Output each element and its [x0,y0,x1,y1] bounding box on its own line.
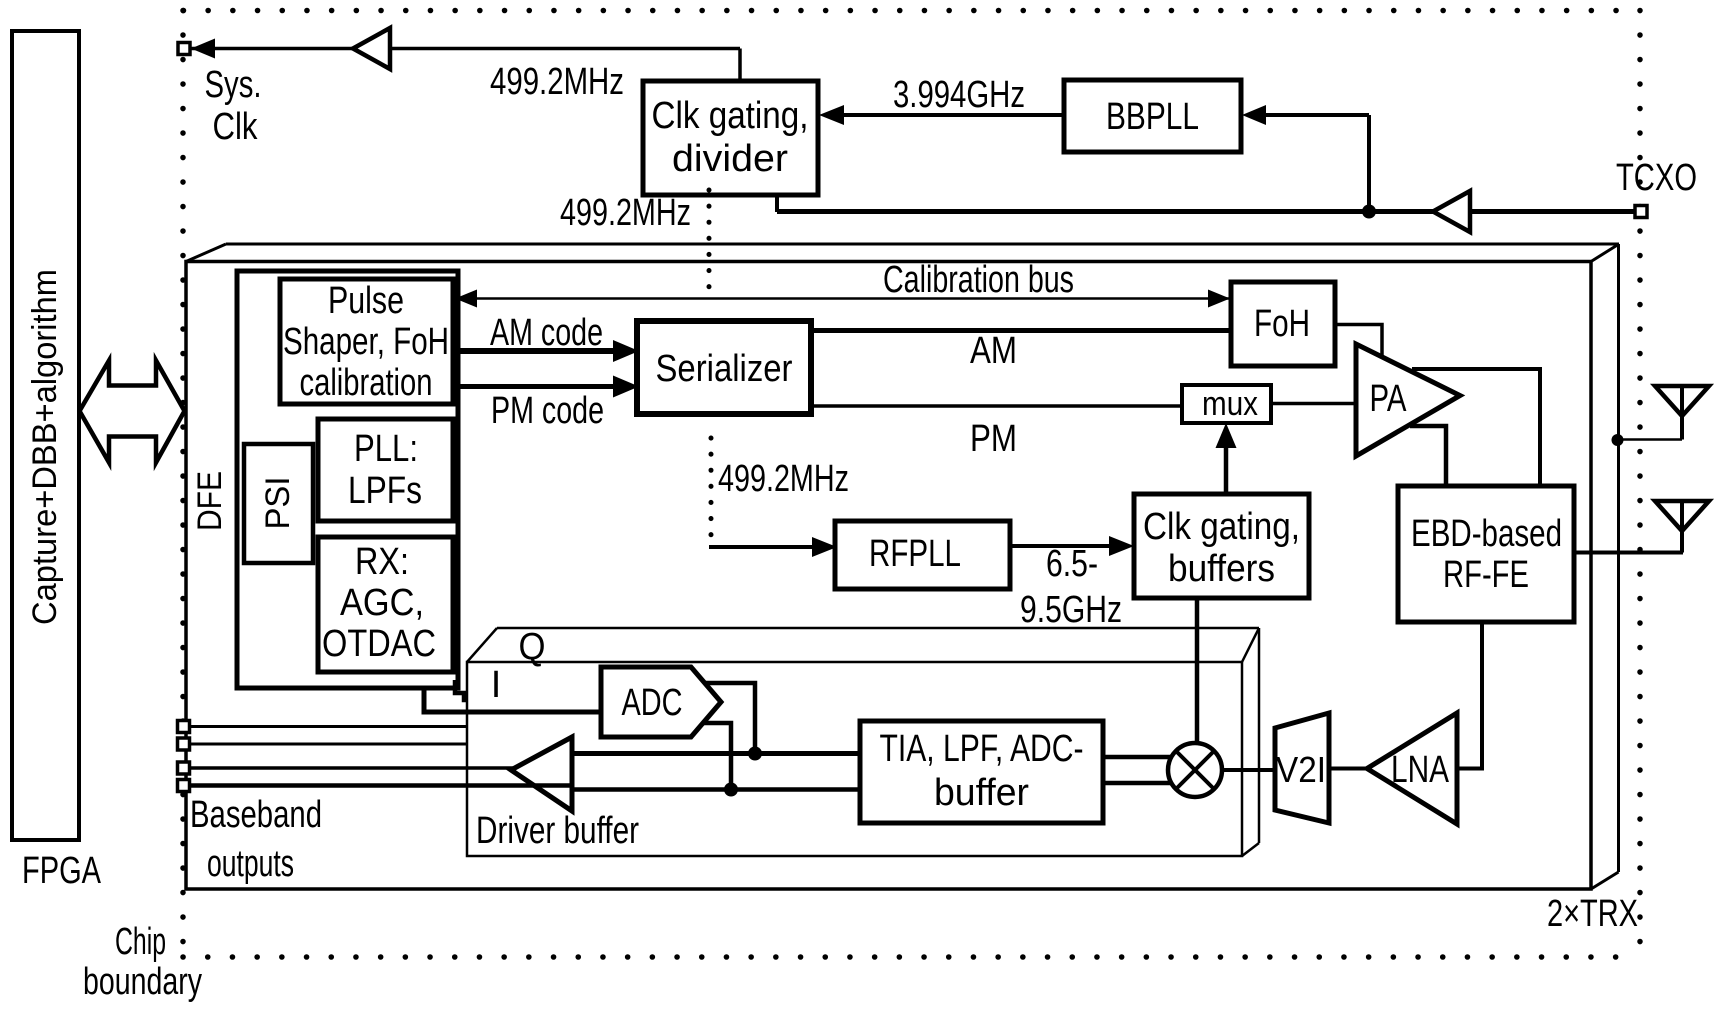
svg-text:3.994GHz: 3.994GHz [893,74,1025,116]
wire Sys.Clk [190,47,740,51]
clk buffers to mixer wire [1195,598,1200,747]
TCXO pad [1635,206,1647,218]
svg-text:V2I: V2I [1276,749,1326,790]
svg-text:LNA: LNA [1391,749,1450,791]
TIA to mixer wires [1103,755,1178,760]
V2I to LNA wire [1329,767,1368,771]
TIA LPF ADC-buffer box [860,721,1103,823]
svg-text:FPGA: FPGA [22,850,101,892]
FoH to PA wire [1335,325,1382,368]
wire divider bottom to TCXO line [775,193,779,212]
svg-text:Pulse: Pulse [328,280,404,322]
PA [1356,344,1460,456]
svg-text:mux: mux [1202,385,1258,423]
svg-text:BBPLL: BBPLL [1106,96,1199,138]
arrowhead into mux [1216,423,1237,448]
svg-text:Driver buffer: Driver buffer [476,810,639,852]
baseband pads [178,721,190,792]
AM wire [811,328,1231,333]
svg-text:boundary: boundary [83,961,202,1003]
RFPLL box [835,521,1010,589]
svg-text:PM code: PM code [491,390,604,432]
arrowhead into divider [819,105,844,125]
svg-text:AGC,: AGC, [340,582,424,624]
LNA to EBD wire [1457,767,1482,771]
EBD to PA wire [1410,426,1446,487]
svg-text:Shaper, FoH: Shaper, FoH [283,321,449,363]
svg-text:I: I [491,664,502,706]
LNA [1367,713,1457,824]
PSI box [244,444,313,563]
wire TCXO [777,209,1634,214]
svg-text:PSI: PSI [259,477,297,530]
TCXO input buffer [1433,191,1470,232]
Serializer box [637,321,811,414]
dotted 499.2MHz clock feed lower [709,438,714,536]
svg-text:RFPLL: RFPLL [869,533,961,575]
svg-text:499.2MHz: 499.2MHz [718,458,849,500]
svg-text:ADC: ADC [622,682,683,724]
svg-text:buffer: buffer [934,772,1029,814]
svg-text:divider: divider [672,138,788,180]
svg-text:DFE: DFE [191,471,229,531]
junction Q tap [724,783,738,797]
svg-text:AM code: AM code [490,312,603,354]
PLL LPFs box [318,419,453,521]
svg-text:Clk: Clk [213,106,259,148]
arrowhead into RFPLL [812,537,837,557]
svg-text:Q: Q [519,626,546,668]
svg-text:Capture+DBB+algorithm: Capture+DBB+algorithm [26,269,64,625]
svg-text:PA: PA [1370,378,1408,420]
svg-text:RF-FE: RF-FE [1443,554,1529,596]
chip 3D box [186,244,1619,889]
mixer to V2I wire [1222,768,1276,772]
baseband wire 4 [189,783,572,788]
calibration bus wire [454,297,1231,300]
svg-text:Chip: Chip [115,921,166,963]
I wire driver buffer to TIA [572,751,860,756]
junction antenna 1 [1612,434,1624,446]
clk buffers to mux wire [1224,441,1229,494]
arrowhead PM code [613,376,639,398]
svg-text:6.5-: 6.5- [1046,543,1098,585]
driver buffer [511,737,572,811]
I/Q TRX pair 3D box [467,628,1259,856]
PM code wire [457,384,617,389]
DFE stub wire [455,680,468,700]
svg-text:calibration: calibration [300,362,433,404]
svg-text:FoH: FoH [1254,303,1310,345]
PA output wire [1412,369,1540,487]
arrowhead into BBPLL [1242,105,1266,125]
ADC output wire to DFE [424,688,602,712]
svg-text:buffers: buffers [1168,548,1275,590]
FPGA-chip double arrow [80,361,185,463]
arrowhead into clk buffers [1109,536,1134,556]
wire divider to Sys.Clk line [738,49,742,85]
svg-text:499.2MHz: 499.2MHz [490,61,624,103]
PM wire [811,404,1182,408]
mux to PA wire [1271,402,1357,406]
svg-text:Serializer: Serializer [656,348,793,390]
mixer [1168,743,1222,797]
baseband wire 1 [189,725,467,728]
svg-text:OTDAC: OTDAC [322,623,436,665]
svg-text:PM: PM [970,418,1017,460]
antenna 2 [1655,501,1709,531]
EBD-based RF-FE box [1398,486,1574,622]
wire junction to BBPLL [1367,115,1371,212]
BBPLL box [1064,80,1241,152]
Sys.Clk pad [178,43,190,55]
svg-text:TIA, LPF, ADC-: TIA, LPF, ADC- [880,728,1084,770]
svg-text:Baseband: Baseband [190,794,322,836]
DFE box [237,271,458,688]
svg-text:AM: AM [970,330,1017,372]
RFPLL to clk buffers wire [1010,544,1112,548]
Clk gating divider box [643,81,818,195]
EBD to antenna wire [1574,551,1683,555]
Q wire driver buffer to TIA [572,787,860,792]
sys clock buffer [353,28,390,69]
ADC [601,667,721,737]
svg-text:RX:: RX: [355,541,409,583]
arrowhead into Pulse Shaper [455,290,477,308]
wire BBPLL to divider [842,113,1064,117]
svg-text:PLL:: PLL: [354,428,418,470]
junction I tap [748,747,762,761]
Pulse Shaper FoH calibration box [280,279,453,404]
svg-text:EBD-based: EBD-based [1411,513,1562,555]
svg-text:TCXO: TCXO [1616,157,1697,199]
arrowhead to Sys.Clk pad [191,39,215,59]
svg-text:Clk gating,: Clk gating, [1143,506,1300,548]
baseband wire 2 [189,743,467,746]
antenna 1 wire [1617,438,1682,441]
svg-text:Calibration bus: Calibration bus [883,259,1074,301]
antenna 1 [1655,386,1709,416]
Clk gating buffers box [1134,494,1309,598]
svg-text:499.2MHz: 499.2MHz [560,192,691,234]
arrowhead into FoH [1208,290,1230,308]
junction TCXO/BBPLL [1362,205,1376,219]
svg-text:Clk gating,: Clk gating, [652,95,809,137]
FPGA box [12,31,79,840]
V2I [1275,713,1329,823]
svg-text:outputs: outputs [207,843,294,885]
ADC tap wire I [704,683,755,753]
svg-text:9.5GHz: 9.5GHz [1020,589,1122,631]
ADC tap wire Q [703,723,731,790]
AM code wire [457,348,617,354]
svg-text:LPFs: LPFs [348,470,422,512]
FoH box [1231,282,1335,366]
mux box [1182,385,1271,423]
chip boundary dotted outline [183,11,1640,958]
baseband wire 3 [189,766,513,770]
svg-text:2×TRX: 2×TRX [1547,893,1638,935]
svg-text:Sys.: Sys. [205,64,262,106]
dotted 499.2MHz clock feed upper [707,190,712,294]
arrowhead AM code [613,340,639,362]
wire into RFPLL [709,545,818,549]
RX AGC OTDAC box [318,537,453,672]
